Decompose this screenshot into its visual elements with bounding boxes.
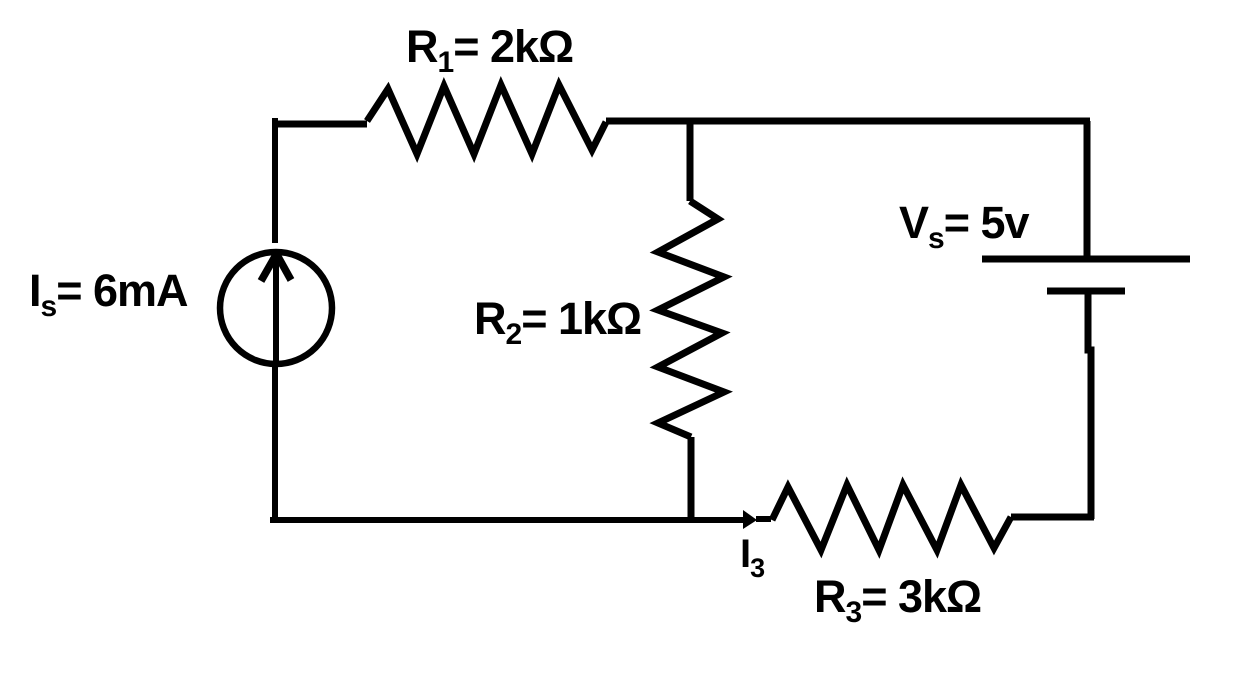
battery VS bottom plate (short) bbox=[1047, 288, 1125, 295]
wire bottom horizontal bbox=[270, 517, 744, 523]
wire bottom-right horizontal (R3 to right vertical) bbox=[1011, 514, 1094, 521]
svg-text:I3: I3 bbox=[740, 532, 765, 583]
svg-text:R2= 1kΩ: R2= 1kΩ bbox=[474, 293, 641, 351]
wire right vertical upper (top wire to battery) bbox=[1084, 121, 1091, 259]
wire top-left horizontal (source top to R1 left) bbox=[272, 121, 367, 128]
current source arrow barb left bbox=[261, 253, 277, 281]
resistor R2 zigzag bbox=[658, 201, 724, 437]
wire right vertical lower (battery to bottom-right corner) bbox=[1088, 293, 1091, 519]
node A junction (top wire to R2) bbox=[687, 121, 694, 201]
wire R2 bottom vertical bbox=[688, 437, 695, 522]
current source IS circle bbox=[220, 252, 332, 364]
wire arrow stub bbox=[756, 516, 771, 522]
battery VS top plate (long) bbox=[982, 256, 1190, 263]
resistor R1 zigzag bbox=[367, 85, 606, 154]
arrowhead I3 current direction bbox=[743, 510, 757, 529]
resistor R3 zigzag bbox=[772, 485, 1011, 550]
svg-text:Vs= 5v: Vs= 5v bbox=[899, 197, 1030, 255]
current source arrow barb right bbox=[276, 253, 291, 280]
svg-text:R3= 3kΩ: R3= 3kΩ bbox=[814, 571, 981, 629]
wire left vertical (source to top wire) bbox=[272, 118, 278, 243]
wire top horizontal (R1 right to top-right corner) bbox=[606, 118, 1090, 125]
current source arrow shaft bbox=[273, 254, 279, 364]
wire source bottom vertical bbox=[272, 364, 278, 522]
svg-text:Is= 6mA: Is= 6mA bbox=[29, 265, 188, 323]
svg-text:R1= 2kΩ: R1= 2kΩ bbox=[406, 21, 573, 79]
